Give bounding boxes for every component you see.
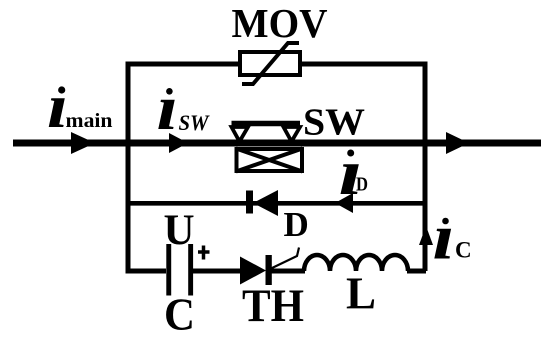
svg-text:main: main <box>66 110 113 132</box>
svg-text:MOV: MOV <box>232 0 328 46</box>
switch SW cross diagonal 2 <box>236 149 303 172</box>
svg-text:D: D <box>356 174 368 196</box>
wire: bottom line left segment <box>126 269 167 274</box>
inductor L coil <box>304 255 408 271</box>
thyristor TH cathode bar <box>266 255 272 285</box>
svg-text:ı: ı <box>157 72 179 143</box>
wire: right vertical branch <box>423 62 428 272</box>
arrow i_main direction on main bus <box>71 132 95 154</box>
arrow output direction on main bus right <box>446 132 469 154</box>
arrow i_D direction on middle line <box>335 193 353 213</box>
wire: bottom line capacitor to thyristor <box>193 269 241 274</box>
switch SW right contact triangle <box>284 127 301 142</box>
wire: left vertical branch <box>126 62 131 272</box>
plus sign polarity <box>198 250 210 254</box>
wire: middle diode line <box>126 201 428 206</box>
thyristor TH triangle <box>240 257 266 285</box>
wire: top rail left of MOV <box>126 62 241 67</box>
thyristor TH gate lead <box>271 248 299 269</box>
diode D cathode bar <box>246 191 253 214</box>
svg-text:ı: ı <box>433 201 455 273</box>
wire: bottom line thyristor to inductor <box>270 269 305 274</box>
svg-text:C: C <box>164 289 195 340</box>
arrow i_SW direction on main bus <box>169 133 188 153</box>
arrow i_C direction on right vertical <box>419 226 433 245</box>
varistor MOV diagonal strike <box>242 43 299 84</box>
switch SW body box <box>237 149 303 171</box>
wire: main horizontal bus <box>13 140 541 147</box>
svg-text:TH: TH <box>242 280 304 332</box>
wire: top rail right of MOV <box>300 62 428 67</box>
switch SW left contact triangle <box>232 127 249 142</box>
svg-text:D: D <box>284 205 309 244</box>
diode D triangle <box>253 190 278 216</box>
svg-text:SW: SW <box>179 110 210 135</box>
svg-text:L: L <box>346 269 376 319</box>
svg-text:C: C <box>455 238 472 263</box>
capacitor C left plate <box>166 244 171 296</box>
varistor MOV body <box>240 52 300 75</box>
svg-text:U: U <box>164 207 195 254</box>
switch SW cross diagonal 1 <box>236 149 303 172</box>
capacitor C right plate <box>188 244 193 296</box>
wire: bottom line inductor to right vertical <box>407 269 426 274</box>
switch SW top bar <box>232 121 301 127</box>
